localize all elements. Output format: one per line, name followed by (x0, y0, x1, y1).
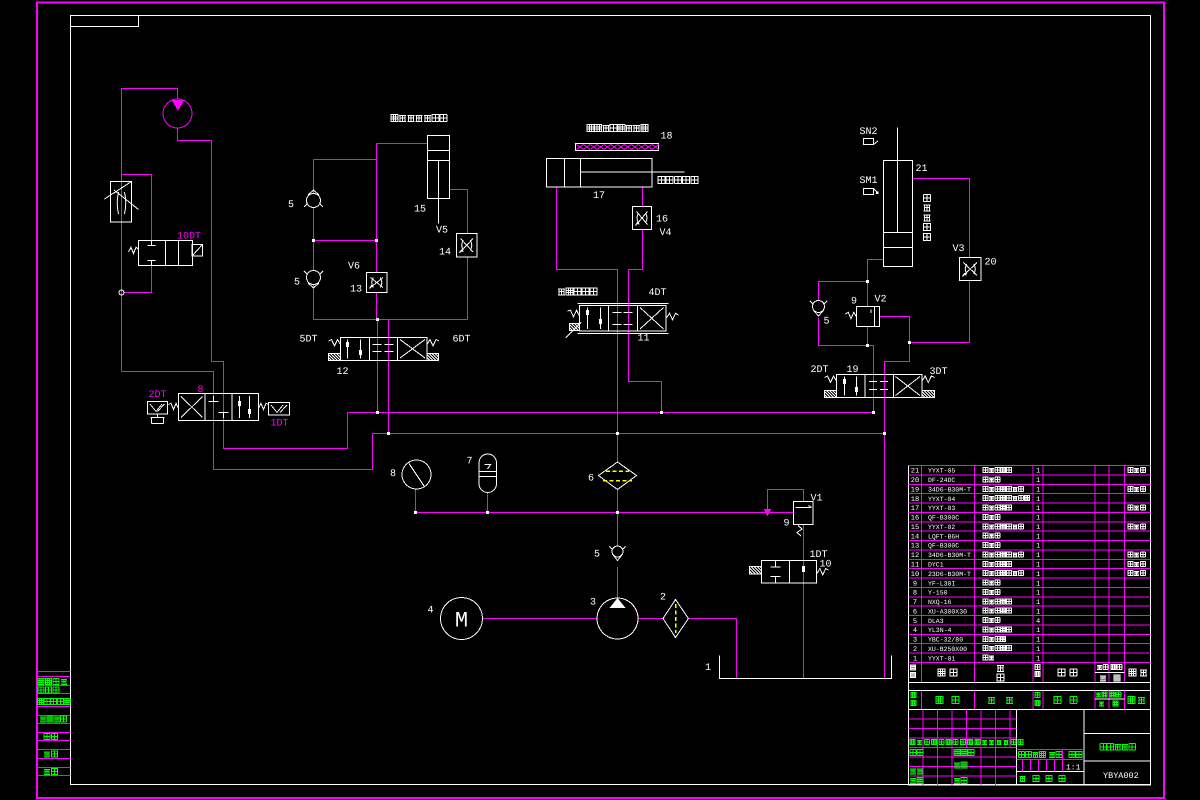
svg-text:11: 11 (911, 561, 919, 569)
svg-text:17: 17 (593, 191, 605, 202)
wire left main vertical (121, 89, 123, 372)
svg-text:V1: V1 (811, 494, 823, 505)
wire valve14 to manifold (467, 258, 469, 320)
svg-text:9: 9 (784, 519, 790, 530)
label sensor cjk (587, 125, 648, 132)
wire bus1 horizontal (348, 412, 874, 414)
svg-text:13: 13 (911, 543, 919, 551)
svg-text:5: 5 (594, 550, 600, 561)
svg-text:1: 1 (1036, 486, 1040, 494)
cylinder 15 gripper (428, 136, 450, 199)
electric motor 4 (441, 598, 483, 640)
wire motor4 to pump3 shaft (483, 618, 598, 620)
svg-text:23D6-B30M-T: 23D6-B30M-T (928, 571, 971, 578)
svg-text:NXQ-16: NXQ-16 (928, 599, 952, 606)
svg-text:13: 13 (350, 285, 362, 296)
svg-text:6DT: 6DT (453, 335, 471, 346)
wire valve 10DT bottom return (124, 266, 152, 293)
right block title (1084, 733, 1151, 735)
wire cylinder15 rod port via valve14 (450, 190, 468, 234)
accumulator 7 (479, 454, 497, 493)
pump 3 (597, 598, 638, 639)
revision table left (909, 710, 1085, 786)
wire cylinder21 cap side via valve V2 (868, 260, 884, 413)
check valve 5 right bypass (813, 301, 825, 313)
valve 8 springs (169, 403, 179, 409)
svg-text:11: 11 (638, 334, 650, 345)
svg-text:V4: V4 (660, 228, 672, 239)
svg-text:12: 12 (911, 552, 919, 560)
svg-text:1: 1 (1036, 561, 1040, 569)
svg-text:1:1: 1:1 (1066, 764, 1081, 773)
filter 2 (663, 600, 689, 638)
valve 11 right spring (667, 313, 679, 319)
svg-text:5: 5 (913, 618, 917, 626)
valve 10 left solenoid (750, 567, 762, 575)
tank 1 (720, 656, 892, 679)
svg-text:8: 8 (913, 590, 917, 598)
pressure gauge 8 (402, 460, 431, 489)
svg-text:18: 18 (661, 132, 673, 143)
svg-text:10: 10 (820, 560, 832, 571)
signature labels green (910, 750, 923, 756)
solenoid valve 10DT (139, 241, 193, 266)
svg-text:1: 1 (1036, 608, 1040, 616)
valve 11 left pilot (568, 310, 580, 316)
svg-text:YYXT-03: YYXT-03 (928, 505, 955, 512)
wire check valve mid link (314, 240, 377, 242)
svg-text:14: 14 (439, 248, 451, 259)
svg-text:1: 1 (1036, 552, 1040, 560)
svg-text:16: 16 (911, 515, 919, 523)
svg-text:SM1: SM1 (860, 176, 878, 187)
valve 8 right solenoid (269, 403, 290, 416)
BOM table grid (909, 466, 1151, 786)
svg-text:4: 4 (913, 627, 917, 635)
svg-text:YYXT-05: YYXT-05 (928, 468, 955, 475)
top-left tab (71, 16, 139, 27)
directional valve 8 body (179, 394, 259, 421)
junction dots (312, 239, 911, 514)
svg-text:10DT: 10DT (177, 232, 201, 243)
svg-text:7: 7 (467, 457, 473, 468)
svg-text:YBC-32/80: YBC-32/80 (928, 637, 963, 644)
svg-text:V2: V2 (875, 295, 887, 306)
svg-text:3: 3 (913, 637, 917, 645)
svg-text:5: 5 (824, 317, 830, 328)
svg-text:YYXT-01: YYXT-01 (928, 655, 955, 662)
revision green text row (910, 740, 1023, 745)
svg-text:2DT: 2DT (149, 390, 167, 401)
svg-text:7: 7 (913, 599, 917, 607)
valve 10 right spring (817, 569, 829, 575)
svg-text:1: 1 (1036, 627, 1040, 635)
wire valve V2 outlet to valve19 (880, 317, 910, 679)
svg-text:8: 8 (198, 385, 204, 396)
svg-text:15: 15 (911, 524, 919, 532)
wire pump3 to filter2 (638, 618, 663, 620)
svg-text:5: 5 (294, 278, 300, 289)
svg-text:20: 20 (911, 477, 919, 485)
svg-text:QF-B300C: QF-B300C (928, 543, 959, 550)
svg-text:1: 1 (1036, 599, 1040, 607)
svg-text:QF-B300C: QF-B300C (928, 515, 959, 522)
sequence valve V2 (857, 307, 880, 327)
label horizontal cylinder cjk (658, 177, 698, 184)
svg-text:YYXT-04: YYXT-04 (928, 496, 955, 503)
svg-text:18: 18 (911, 496, 919, 504)
middle block stage mark (1019, 752, 1046, 758)
svg-text:1: 1 (1036, 468, 1040, 476)
svg-text:19: 19 (847, 365, 859, 376)
wire check valve column A (313, 160, 315, 320)
svg-text:LQFT-B6H: LQFT-B6H (928, 533, 959, 540)
svg-text:1: 1 (1036, 505, 1040, 513)
wire pump-top to motor M1 (122, 89, 178, 100)
svg-text:2DT: 2DT (811, 365, 829, 376)
label gripper cylinder cjk (391, 115, 447, 122)
svg-text:YYXT-02: YYXT-02 (928, 524, 955, 531)
svg-text:YBYA002: YBYA002 (1103, 771, 1139, 781)
cylinder 21 piston rod (897, 128, 899, 233)
wire supply line through valve11 filter6 check5 pump3 (617, 490, 619, 547)
svg-text:YL3N-4: YL3N-4 (928, 627, 952, 634)
wire throttle column B (376, 144, 378, 320)
svg-text:V3: V3 (953, 244, 965, 255)
svg-text:34D6-B30M-T: 34D6-B30M-T (928, 486, 971, 493)
svg-text:1: 1 (1036, 533, 1040, 541)
wire relief valve V1 pilot loop (768, 490, 804, 513)
check valve 5 middle (612, 546, 623, 557)
svg-text:14: 14 (911, 533, 919, 541)
wire check valve bypass loop right (819, 282, 868, 301)
cylinder 17 horizontal (547, 159, 653, 188)
svg-text:9: 9 (913, 580, 917, 588)
BOM green header band (909, 691, 1151, 710)
svg-text:1: 1 (913, 655, 917, 663)
check valve 5 lower (307, 271, 321, 285)
svg-text:20: 20 (985, 258, 997, 269)
wire check-valve branch horizontals (314, 159, 377, 161)
svg-text:1: 1 (1036, 515, 1040, 523)
label vertical cylinder cjk (924, 195, 931, 241)
svg-text:Y-150: Y-150 (928, 590, 948, 597)
svg-text:3: 3 (590, 598, 596, 609)
svg-text:2: 2 (913, 646, 917, 654)
title block outline (909, 710, 1151, 786)
svg-text:16: 16 (656, 215, 668, 226)
throttle valve 20 V3 (960, 258, 982, 281)
wire to cylinder 15 cap port (377, 143, 428, 145)
svg-text:34D6-B30M-T: 34D6-B30M-T (928, 552, 971, 559)
svg-text:DYC1: DYC1 (928, 561, 944, 568)
valve 12 solenoids hatched (329, 354, 341, 361)
svg-text:SN2: SN2 (860, 127, 878, 138)
wire cylinder21 rod side via valve20 (913, 179, 970, 258)
throttle valve 14 V5 (457, 234, 478, 258)
solenoid valve 10 body (762, 561, 817, 584)
svg-text:8: 8 (390, 469, 396, 480)
svg-text:XU-B250X00: XU-B250X00 (928, 646, 967, 653)
check valve 5 upper (307, 194, 321, 208)
svg-text:V6: V6 (348, 262, 360, 273)
wire manifold above valve12 (314, 319, 468, 321)
drain port circle node (119, 290, 124, 295)
svg-text:1: 1 (1036, 655, 1040, 663)
relief valve V1 (794, 502, 814, 525)
svg-text:4: 4 (1036, 618, 1040, 626)
svg-text:15: 15 (414, 205, 426, 216)
svg-text:1: 1 (1036, 477, 1040, 485)
svg-text:17: 17 (911, 505, 919, 513)
svg-text:V5: V5 (436, 226, 448, 237)
svg-text:1: 1 (1036, 496, 1040, 504)
svg-text:3DT: 3DT (930, 367, 948, 378)
svg-text:4DT: 4DT (649, 288, 667, 299)
svg-text:21: 21 (916, 164, 928, 175)
valve 19 solenoids hatched (825, 391, 837, 398)
svg-text:5DT: 5DT (300, 335, 318, 346)
svg-text:6: 6 (913, 608, 917, 616)
svg-text:1: 1 (1036, 571, 1040, 579)
svg-text:5: 5 (288, 200, 294, 211)
throttle valve 13 V6 (367, 273, 388, 293)
wire left line to valve8 left port (122, 372, 373, 470)
BOM header white text (911, 665, 916, 670)
wire valve12 port P (377, 320, 379, 413)
valve 8 left solenoid with tank (148, 402, 168, 415)
svg-text:1: 1 (1036, 543, 1040, 551)
svg-text:1: 1 (705, 663, 711, 674)
solenoid valve 19 body (837, 375, 923, 398)
valve 12 springs (329, 340, 341, 346)
svg-text:21: 21 (911, 468, 919, 476)
svg-text:2: 2 (660, 593, 666, 604)
svg-text:DLA3: DLA3 (928, 618, 944, 625)
left strip cell lines (37, 672, 71, 776)
svg-text:4: 4 (428, 606, 434, 617)
wire relief V1 to valve10 to tank (803, 525, 805, 679)
BOM rows text (911, 467, 1146, 663)
wire cylinder17 rod port via valve16 (642, 188, 644, 207)
svg-text:6: 6 (588, 474, 594, 485)
throttle valve 16 V4 (633, 207, 652, 230)
svg-text:1DT: 1DT (271, 419, 289, 430)
wire pump outlet down to valve 8 (178, 128, 348, 449)
electro-hydraulic valve 11 body (578, 303, 669, 305)
hydraulic motor M1 top-left (163, 99, 192, 128)
cylinder 21 vertical (884, 161, 913, 267)
svg-text:1: 1 (1036, 580, 1040, 588)
svg-text:9: 9 (851, 297, 857, 308)
left strip green labels (38, 679, 67, 685)
svg-text:YF-L30I: YF-L30I (928, 580, 955, 587)
svg-text:12: 12 (337, 367, 349, 378)
wire bus2 horizontal (373, 433, 885, 435)
svg-text:XU-A300X30: XU-A300X30 (928, 608, 967, 615)
wire cylinder17 cap port down (557, 188, 618, 463)
svg-text:10: 10 (911, 571, 919, 579)
wire valve12 port T (388, 320, 390, 434)
wire pressure manifold (415, 490, 417, 513)
solenoid valve 12 body (341, 338, 428, 361)
svg-text:1: 1 (1036, 637, 1040, 645)
leader line V5 (438, 199, 440, 224)
filter 6 (599, 462, 637, 490)
variable throttle valve top-left (111, 182, 132, 223)
wire branch to valve 10DT (122, 175, 152, 241)
valve 19 springs (825, 376, 837, 382)
svg-text:1: 1 (1036, 524, 1040, 532)
svg-text:M: M (455, 609, 468, 634)
svg-text:1: 1 (1036, 646, 1040, 654)
svg-text:1: 1 (1036, 590, 1040, 598)
junction arrow at relief branch (765, 510, 771, 516)
wire filter2 to tank (689, 619, 737, 679)
position sensor 18 bar (576, 144, 659, 151)
svg-text:DF-24DC: DF-24DC (928, 477, 955, 484)
svg-text:19: 19 (911, 486, 919, 494)
